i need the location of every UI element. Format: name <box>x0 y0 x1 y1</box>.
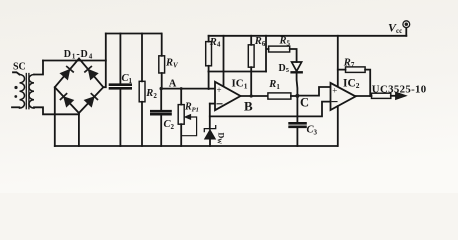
output wire to arrow <box>391 95 397 97</box>
output arrowhead <box>396 92 407 100</box>
potentiometer RP1 <box>180 89 182 146</box>
primary top lead <box>13 72 20 74</box>
wire Vcc to R7 and IC2 top <box>337 36 339 86</box>
IC2 output wire <box>356 95 372 97</box>
IC2 minus dash <box>332 101 337 103</box>
resistor R6 <box>250 36 252 96</box>
transformer T secondary coil <box>29 75 34 109</box>
wire IC1 supply from rail <box>223 36 225 87</box>
svg-text:A: A <box>169 79 177 90</box>
resistor R1 <box>268 93 291 99</box>
bridge diode D4 (bottom-right arm) <box>84 93 98 107</box>
svg-text:+: + <box>332 86 337 96</box>
junction RP1 top dot <box>180 87 183 90</box>
resistor R4 <box>208 36 210 89</box>
secondary top lead wire <box>34 61 43 75</box>
op-amp IC2 <box>331 83 356 110</box>
svg-text:SC: SC <box>13 61 26 72</box>
resistor R7 <box>338 70 370 96</box>
junction R6-B dot <box>250 94 253 97</box>
capacitor C3 <box>296 96 298 146</box>
capacitor C1 <box>119 34 121 147</box>
mains terminal dot upper <box>14 86 17 89</box>
bridge diode D3 (bottom-left arm) <box>60 93 74 107</box>
secondary bottom lead wire <box>34 107 79 114</box>
transformer core <box>26 74 29 109</box>
svg-text:+: + <box>217 85 222 95</box>
resistor RV <box>161 34 163 89</box>
Vcc terminal circle <box>403 21 410 28</box>
wire IC1 inverting input <box>210 103 215 105</box>
diode D5 <box>292 62 302 71</box>
transformer T primary coil <box>20 75 25 109</box>
wire R1 to node C <box>291 95 298 97</box>
junction node C dot <box>295 94 299 98</box>
wire DC+ vertical <box>103 34 106 88</box>
top-right Vcc rail <box>209 35 407 37</box>
output series resistor <box>372 93 391 98</box>
capacitor C2 <box>160 89 162 146</box>
bridge diode D2 (top-right arm) <box>84 66 98 80</box>
node B output wire <box>241 95 268 97</box>
bridge diamond wires <box>55 59 104 114</box>
bridge diode D1 (top-left arm) <box>60 66 74 80</box>
resistor R5 <box>266 36 297 72</box>
svg-text:UC3525-10: UC3525-10 <box>372 84 427 96</box>
primary bottom lead <box>12 106 20 108</box>
node C vertical and wire to IC2 <box>297 87 330 96</box>
junction node A dot <box>160 87 163 90</box>
svg-text:C: C <box>300 95 309 109</box>
IC1 minus dash <box>217 103 222 105</box>
node A wire <box>161 88 215 90</box>
wire bridge bottom to ground rail <box>78 113 80 146</box>
top-left rail <box>106 33 161 35</box>
op-amp IC1 <box>215 82 241 110</box>
Vcc terminal stem <box>405 28 407 36</box>
svg-text:B: B <box>244 98 253 113</box>
resistor R2 <box>141 34 143 147</box>
svg-text:D1-D4: D1-D4 <box>64 49 93 61</box>
mains terminal dot lower <box>14 95 17 98</box>
wire R4-R6-R5 interconnect <box>208 71 266 73</box>
bottom ground rail <box>55 145 337 147</box>
zener diode DW <box>209 104 211 146</box>
wire bridge left vertex down <box>54 87 56 146</box>
potentiometer RP1 wiper arm <box>181 117 196 136</box>
wire IC2 bottom to ground <box>337 106 339 146</box>
reference wire to IC2 <box>210 102 331 117</box>
wire AC top rail to DC vertical <box>43 60 106 62</box>
